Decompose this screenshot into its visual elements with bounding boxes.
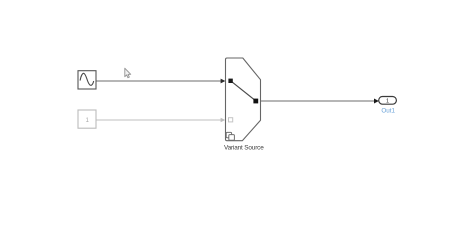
port 1 marker (active, filled square) bbox=[228, 79, 232, 83]
wire from Sine Wave to Variant Source port 1 bbox=[96, 79, 225, 84]
block Constant (value 1, inactive) bbox=[78, 110, 96, 128]
output marker (filled square) bbox=[253, 99, 258, 104]
port 2 marker (inactive, open square) bbox=[229, 118, 233, 122]
svg-text:1: 1 bbox=[386, 99, 389, 105]
block Sine Wave bbox=[78, 71, 96, 89]
label "Variant Source" bbox=[224, 144, 264, 151]
label "Out1" bbox=[381, 107, 395, 114]
svg-text:Variant Source: Variant Source bbox=[224, 144, 264, 151]
variant badge (two overlapping squares) at block bottom-left bbox=[226, 132, 234, 140]
wire from Variant Source output to Out1 bbox=[261, 99, 379, 104]
block Variant Source (hexagonal outline) bbox=[226, 58, 261, 141]
svg-text:1: 1 bbox=[85, 117, 89, 124]
selector line inside Variant Source (port1 to output) bbox=[231, 81, 256, 101]
wire from Constant to Variant Source port 2 (inactive) bbox=[96, 118, 225, 123]
mouse cursor bbox=[125, 68, 131, 78]
svg-text:Out1: Out1 bbox=[381, 107, 395, 114]
block Out1 (output port, pill shape) bbox=[379, 97, 397, 105]
